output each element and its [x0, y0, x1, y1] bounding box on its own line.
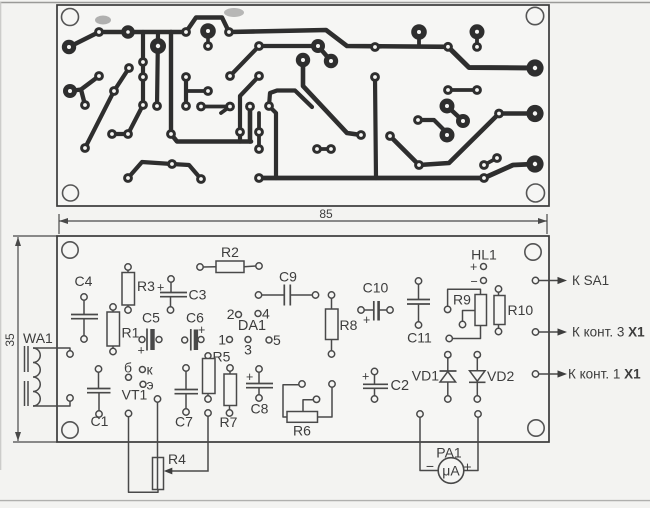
trimmer R6: [287, 412, 318, 423]
wire stem: [475, 33, 479, 47]
resistor R10: [494, 296, 505, 325]
svg-text:+: +: [363, 313, 370, 327]
wire diagonal left: [85, 68, 129, 148]
mounting hole top-right: [526, 7, 543, 24]
pad: [154, 396, 160, 402]
trimmer R9: [475, 295, 487, 326]
wire pair diagonal: [112, 105, 143, 134]
svg-text:C4: C4: [75, 273, 93, 289]
pad big: [121, 25, 135, 39]
pad: [95, 366, 101, 372]
pad big: [62, 40, 76, 54]
svg-text:к: к: [147, 362, 154, 378]
wire: [83, 319, 85, 336]
wire elbow horizontal: [171, 134, 251, 142]
pad HL1+: [481, 264, 487, 270]
pad: [475, 411, 481, 417]
pad big: [440, 128, 455, 143]
meter PA1 body: [438, 458, 464, 484]
pad: [203, 86, 213, 96]
pad: [459, 321, 465, 327]
wire pair: [484, 158, 497, 165]
wire vertical: [375, 77, 376, 178]
pad: [254, 41, 264, 51]
svg-text:C3: C3: [189, 287, 207, 303]
pad big: [411, 24, 427, 40]
wire: [476, 358, 478, 371]
pad: [225, 102, 235, 112]
pad: [123, 173, 133, 183]
pad big: [150, 38, 166, 54]
pad: [479, 160, 489, 170]
wire from big pad: [70, 76, 99, 91]
capacitor C1 plates: [87, 388, 111, 390]
svg-text:R8: R8: [340, 317, 358, 333]
wire: [262, 294, 285, 296]
diode VD1 symbol: [440, 370, 457, 372]
pad: [197, 264, 203, 270]
wire: [374, 388, 376, 396]
pad: [138, 72, 148, 82]
wire vertical short: [184, 77, 188, 106]
diode VD2 symbol: [470, 371, 486, 382]
capacitor C7 plates: [175, 389, 199, 391]
wire top-left bus: [69, 32, 186, 47]
wire: [476, 383, 478, 396]
pad WA1-1: [67, 351, 73, 357]
svg-text:R10: R10: [508, 302, 534, 318]
svg-text:К конт. 1 Х1: К конт. 1 Х1: [568, 367, 641, 382]
pad: [198, 337, 204, 343]
wire: [98, 372, 100, 388]
pad: [328, 351, 334, 357]
pad: [110, 304, 116, 310]
wire vertical: [141, 32, 145, 105]
pad: [107, 129, 117, 139]
pad: [181, 27, 191, 37]
wire to big pad: [418, 120, 447, 133]
pad: [371, 368, 377, 374]
pad: [472, 42, 482, 52]
pad: [413, 115, 423, 125]
svg-text:4: 4: [262, 306, 270, 322]
pad: [385, 131, 395, 141]
svg-text:−: −: [471, 275, 478, 289]
wire: [112, 310, 114, 312]
wire R9 top: [448, 289, 481, 306]
wire vertical stub: [257, 113, 261, 149]
resistor R7: [224, 374, 237, 406]
svg-text:+: +: [246, 370, 253, 384]
wire top bus: [229, 30, 448, 47]
svg-text:C8: C8: [251, 401, 269, 417]
wire to external connection: [539, 373, 558, 375]
svg-text:+: +: [362, 370, 369, 384]
capacitor C9 plates: [283, 285, 285, 306]
pad: [80, 100, 90, 110]
pad: [313, 396, 319, 402]
svg-text:+: +: [470, 260, 477, 274]
pad: [446, 335, 452, 341]
component-side board outline: [57, 236, 549, 442]
pad edge: [532, 329, 538, 335]
capacitor C11 plates: [407, 299, 430, 301]
pad DA1 pin2: [236, 312, 242, 318]
mounting hole: [62, 422, 78, 438]
wire: [170, 282, 172, 292]
wire: [127, 270, 129, 272]
pad: [495, 328, 501, 334]
pad: [299, 381, 305, 387]
wire hook: [221, 107, 230, 114]
pad: [370, 42, 380, 52]
wire: [364, 309, 374, 311]
pad: [168, 276, 174, 282]
pad: [181, 72, 191, 82]
pad: [205, 396, 211, 402]
svg-text:C2: C2: [391, 378, 410, 394]
wire diagonal: [230, 46, 259, 76]
wire vertical: [157, 33, 158, 106]
wire bottom-left run: [128, 162, 201, 179]
svg-text:R4: R4: [168, 451, 186, 467]
svg-text:К SA1: К SA1: [572, 273, 609, 288]
dimension 35: [17, 237, 19, 441]
svg-text:C10: C10: [363, 280, 389, 296]
wire PA1 right: [464, 417, 478, 470]
pad: [167, 307, 173, 313]
svg-text:C11: C11: [407, 330, 432, 346]
svg-text:VD2: VD2: [487, 368, 514, 384]
pad: [205, 353, 211, 359]
wire R6 left: [283, 385, 299, 417]
pad: [443, 85, 453, 95]
pad: [474, 396, 480, 402]
svg-text:μA: μA: [442, 463, 460, 479]
pad: [224, 27, 234, 37]
svg-text:3: 3: [244, 342, 252, 358]
resistor R2: [216, 261, 244, 273]
pad: [255, 292, 261, 298]
svg-text:C9: C9: [279, 269, 297, 285]
wire R9 bottom: [452, 326, 480, 339]
svg-text:35: 35: [3, 333, 17, 347]
wire: [498, 292, 500, 295]
pad: [181, 101, 191, 111]
wire bottom bus: [259, 176, 484, 181]
pad: [205, 410, 211, 416]
pad: [358, 307, 364, 313]
svg-text:+: +: [198, 323, 205, 337]
wire: [447, 358, 449, 371]
pad: [254, 144, 264, 154]
pad: [183, 365, 189, 371]
wire: [207, 394, 209, 396]
wire tent: [269, 91, 312, 108]
pad: [445, 352, 451, 358]
svg-text:VD1: VD1: [412, 368, 439, 384]
pad DA1 pin5: [266, 337, 272, 343]
pad edge: [532, 371, 538, 377]
pad: [264, 101, 274, 111]
pad: [254, 173, 264, 183]
pad: [226, 410, 232, 416]
wire: [244, 265, 256, 268]
resistor R3: [122, 273, 135, 306]
svg-text:R9: R9: [453, 292, 471, 308]
pad: [387, 307, 393, 313]
pad: [203, 41, 213, 51]
pad: [156, 337, 162, 343]
mounting hole: [525, 244, 541, 260]
pad: [417, 411, 423, 417]
wire: [127, 305, 129, 307]
pad: [254, 71, 264, 81]
svg-text:R1: R1: [122, 325, 140, 341]
wire: [498, 325, 500, 329]
pad: [183, 409, 189, 415]
pad big: [470, 24, 485, 39]
pad: [370, 72, 380, 82]
pad DA1 pin4: [255, 311, 261, 317]
svg-text:R2: R2: [221, 244, 239, 260]
dimension 85: [59, 220, 547, 222]
pad big: [324, 54, 338, 68]
pad: [328, 292, 334, 298]
pad big: [526, 105, 543, 122]
pad: [139, 337, 145, 343]
pad: [256, 366, 262, 372]
wire to right big pad: [484, 164, 535, 178]
pad: [245, 102, 255, 112]
pad: [138, 100, 148, 110]
wire: [170, 297, 172, 307]
pad: [80, 143, 90, 153]
svg-text:б: б: [124, 360, 132, 376]
wire stub up: [238, 132, 242, 142]
wire: [112, 346, 114, 348]
pad: [445, 396, 451, 402]
wire R4 left: [129, 417, 159, 493]
capacitor C6 plates: [190, 329, 192, 351]
wire horizontal: [259, 44, 318, 48]
mounting hole top-left: [62, 9, 79, 26]
wire: [203, 266, 216, 268]
svg-text:−: −: [426, 458, 434, 474]
pad: [495, 286, 501, 292]
transformer WA1 core: [24, 346, 26, 372]
mounting hole: [62, 242, 78, 258]
capacitor C8 plates: [246, 383, 273, 385]
pad: [125, 264, 131, 270]
pad: [182, 337, 188, 343]
wire R6 wiper: [303, 400, 313, 412]
wire vertical to bus: [269, 106, 276, 178]
pad: [125, 410, 131, 416]
wire branch: [81, 90, 85, 106]
wire: [418, 304, 420, 322]
pad: [312, 144, 322, 154]
capacitor C3 plates: [160, 292, 187, 294]
pad: [125, 307, 131, 313]
pad: [414, 160, 424, 170]
pad: [227, 365, 233, 371]
wire WA1 top lead: [33, 348, 70, 351]
pad: [312, 292, 318, 298]
wire stem: [206, 33, 210, 46]
wire right diagonal run: [390, 114, 535, 166]
wire: [98, 393, 100, 411]
pad VT1 emitter: [140, 381, 146, 387]
pad: [444, 306, 450, 312]
pad big: [311, 39, 325, 53]
transformer WA1 winding: [33, 348, 40, 406]
wire R6 right: [318, 387, 333, 417]
pad WA1-2: [67, 395, 73, 401]
trimmer R4: [153, 458, 164, 490]
wire pair: [448, 88, 477, 92]
svg-text:К конт. 3 Х1: К конт. 3 Х1: [572, 325, 645, 340]
pad: [474, 352, 480, 358]
pad: [167, 159, 177, 169]
pad: [415, 322, 421, 328]
svg-text:85: 85: [319, 207, 333, 221]
pad big: [440, 99, 455, 114]
resistor R8: [326, 309, 339, 340]
pad: [326, 144, 336, 154]
pad VT1 collector: [139, 367, 145, 373]
wire pair: [201, 105, 230, 109]
pad: [81, 294, 87, 300]
pad: [492, 153, 502, 163]
svg-text:C7: C7: [175, 414, 193, 430]
svg-text:VT1: VT1: [122, 387, 148, 403]
svg-text:WA1: WA1: [23, 330, 53, 346]
pad: [256, 395, 262, 401]
wire pair: [317, 147, 331, 151]
pad: [225, 71, 235, 81]
wire diagonal down: [240, 76, 259, 132]
pad DA1 pin1: [227, 337, 233, 343]
svg-text:C5: C5: [142, 310, 160, 326]
wire stem: [417, 33, 421, 47]
wire: [418, 284, 420, 299]
svg-text:1: 1: [218, 332, 226, 348]
pad big: [200, 23, 216, 39]
pad big: [526, 155, 543, 172]
wire: [258, 372, 260, 383]
wire to external connection: [539, 280, 558, 282]
wire: [185, 371, 187, 389]
wire: [374, 375, 376, 385]
svg-text:+: +: [463, 459, 471, 475]
pad VT1 base: [126, 374, 132, 380]
pad big: [296, 53, 310, 67]
pad edge: [532, 277, 538, 283]
pad: [443, 42, 453, 52]
wire: [258, 388, 260, 395]
wire tent over pad: [186, 18, 229, 33]
mounting hole: [528, 420, 544, 436]
pad: [415, 278, 421, 284]
wire WA1 bottom lead: [33, 401, 70, 406]
capacitor C10 plates: [373, 301, 375, 321]
pad: [94, 71, 104, 81]
pad: [166, 129, 176, 139]
pad: [494, 109, 504, 119]
pad: [356, 130, 366, 140]
wire short diagonal: [318, 46, 331, 61]
wire: [379, 309, 387, 311]
resistor R5: [203, 359, 216, 394]
wire to right big pad: [448, 47, 535, 68]
svg-text:R6: R6: [293, 423, 311, 439]
pad: [109, 86, 119, 96]
wire big pad link: [447, 106, 463, 121]
capacitor C4 plates: [71, 314, 98, 316]
wire big diagonal: [303, 60, 361, 135]
wire PA1 left: [420, 417, 438, 470]
svg-text:э: э: [147, 377, 154, 393]
pad: [110, 348, 116, 354]
pad: [81, 336, 87, 342]
wire: [331, 298, 333, 309]
pad: [472, 85, 482, 95]
wire vertical long: [169, 32, 173, 134]
pad: [235, 127, 245, 137]
svg-text:5: 5: [273, 332, 281, 348]
pad HL1-: [481, 278, 487, 284]
scan smudge: [95, 16, 111, 25]
pad DA1 pin3: [245, 337, 251, 343]
wire: [447, 382, 449, 396]
capacitor C2 plates: [363, 383, 388, 385]
wire R4 wiper with arrow: [169, 416, 208, 471]
svg-text:+: +: [138, 344, 145, 358]
svg-text:2: 2: [227, 306, 235, 322]
scan smudge: [224, 8, 244, 17]
mounting hole bottom-left: [63, 185, 79, 201]
resistor R1: [107, 312, 120, 346]
wire: [185, 394, 187, 409]
pad: [196, 102, 206, 112]
wire to external connection: [539, 331, 558, 333]
pad: [124, 63, 134, 73]
wire vertical: [248, 107, 253, 142]
pad: [138, 57, 148, 67]
pad: [96, 411, 102, 417]
pad big: [63, 84, 77, 98]
pad: [94, 27, 104, 37]
wire: [229, 371, 231, 374]
pad: [256, 263, 262, 269]
mounting hole bottom-right: [527, 184, 545, 202]
pad: [371, 396, 377, 402]
wire: [229, 406, 231, 410]
wire: [331, 340, 333, 351]
pad: [123, 129, 133, 139]
wire R9 wiper: [463, 311, 476, 322]
pad big: [456, 114, 470, 128]
pad big: [526, 59, 543, 76]
pad: [152, 101, 162, 111]
wire R4 main: [157, 402, 159, 489]
wire: [83, 300, 85, 314]
pad: [196, 174, 206, 184]
pad: [329, 381, 335, 387]
wire branch: [186, 89, 208, 93]
wire: [290, 294, 312, 296]
